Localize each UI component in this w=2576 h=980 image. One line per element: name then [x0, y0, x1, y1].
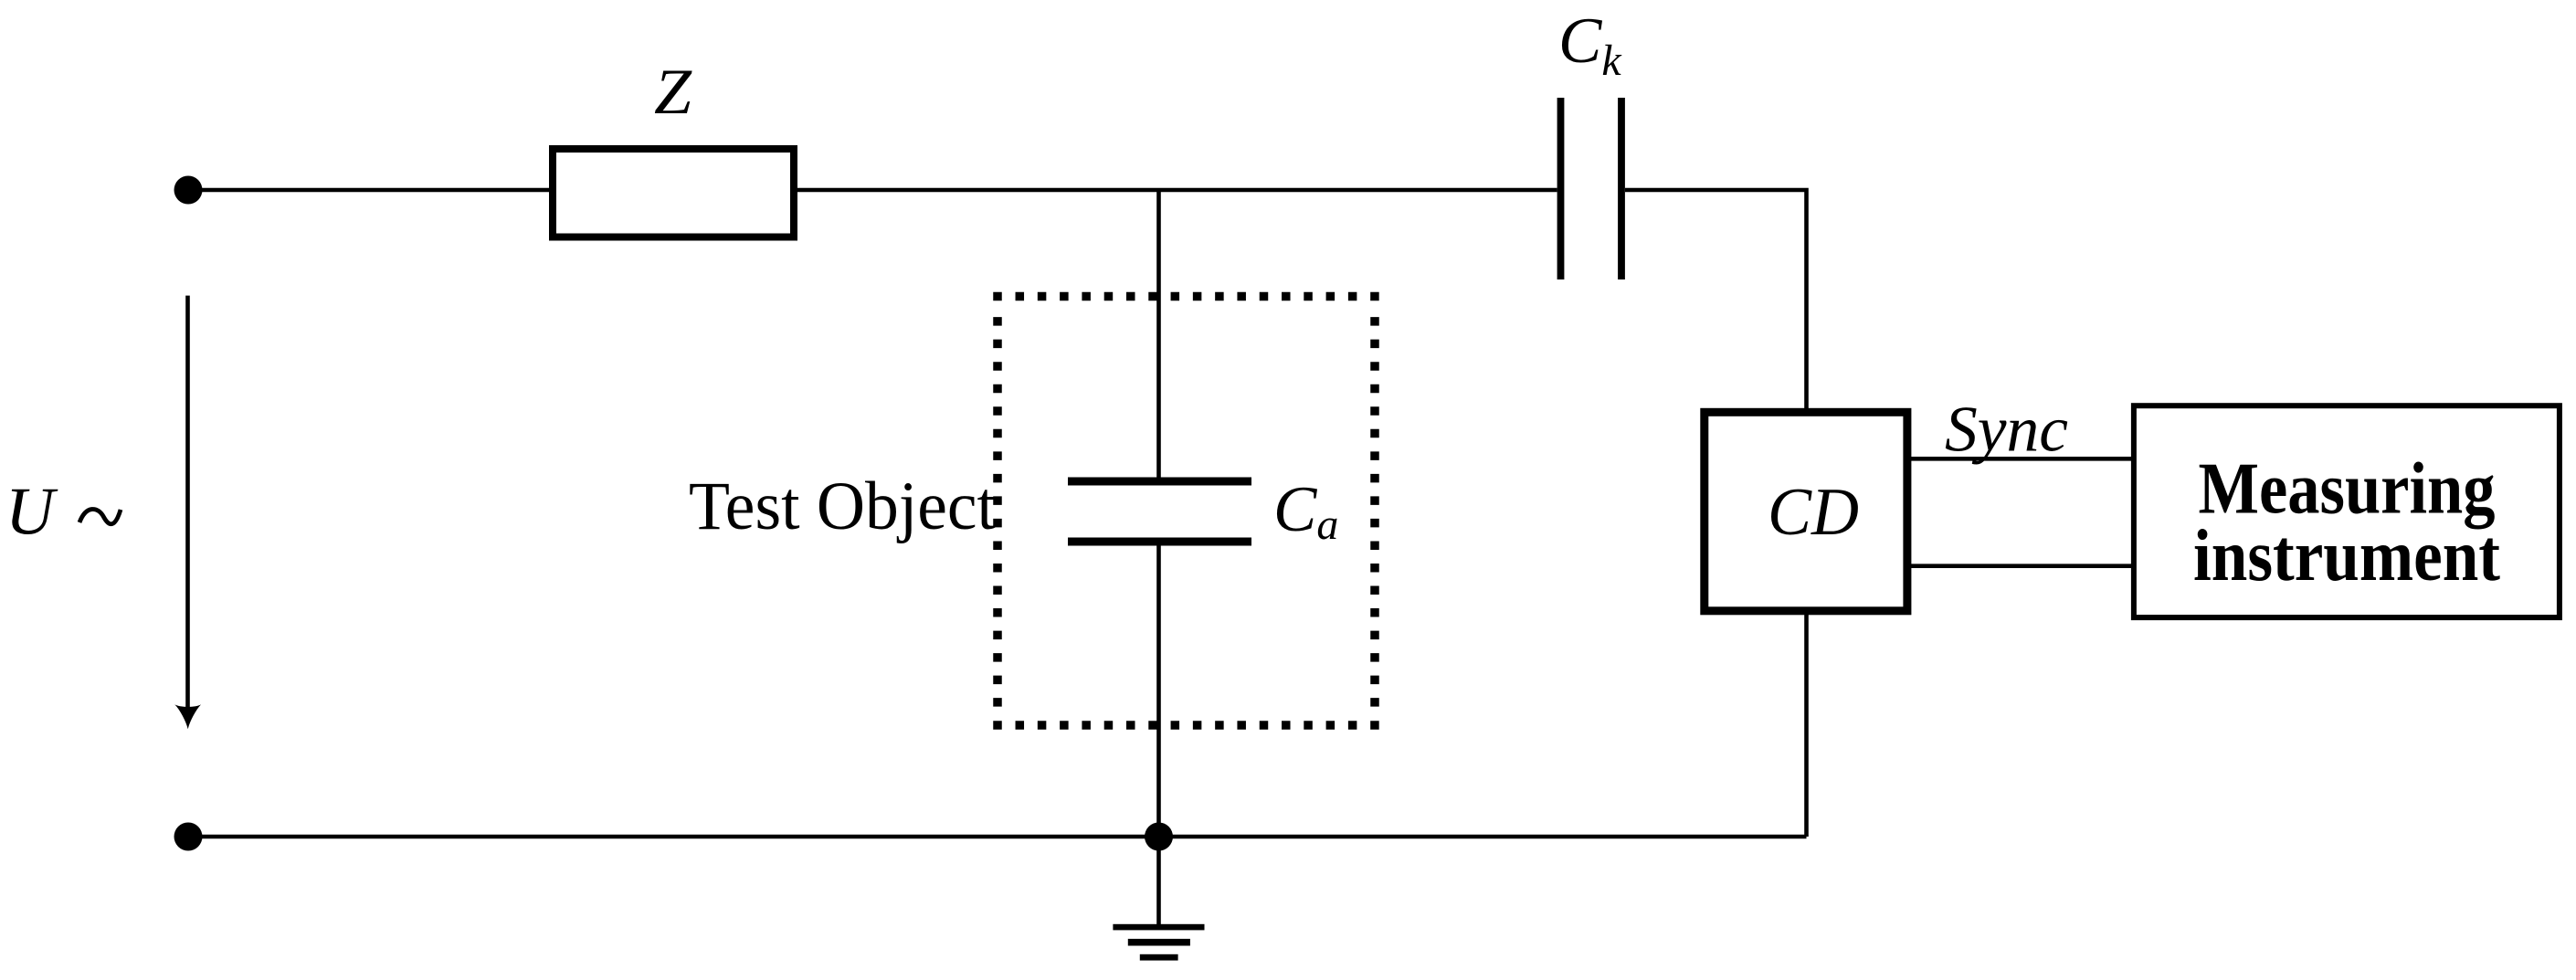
ground bar 1 — [1113, 924, 1204, 931]
node A junction: vertical wire to test object Ca — [1156, 190, 1161, 478]
svg-text:Test Object: Test Object — [689, 469, 996, 544]
svg-text:Z: Z — [654, 57, 693, 128]
node top-left terminal — [174, 176, 203, 205]
wire Sync from CD to measuring instrument — [1911, 457, 2134, 461]
arrow U direction, shaft — [185, 296, 190, 715]
measuring instrument box — [2134, 406, 2560, 617]
wire from bottom wire up to CD box — [1804, 612, 1809, 837]
svg-text:Sync: Sync — [1945, 395, 2068, 466]
ground bar 2 — [1128, 939, 1190, 946]
coupling device CD box — [1705, 412, 1907, 611]
node bottom-left terminal — [174, 823, 203, 851]
wire top-left from terminal to impedance Z — [188, 188, 553, 193]
capacitor Ck left plate — [1557, 98, 1565, 279]
wire from Ca bottom plate down to ground junction — [1156, 545, 1161, 924]
node ground junction — [1145, 823, 1173, 851]
capacitor Ca bottom plate — [1068, 538, 1251, 546]
capacitor Ca top plate — [1068, 478, 1251, 486]
wire bottom from terminal to CD branch — [188, 835, 1807, 839]
resistor Z (filter impedance box) — [553, 149, 794, 237]
ground bar 3 — [1140, 954, 1178, 961]
capacitor Ck right plate — [1618, 98, 1625, 279]
dotted box right edge — [1370, 317, 1379, 707]
dotted box of test object, top edge — [993, 292, 1379, 301]
wire from Ck right plate to corner and down to CD — [1625, 190, 1807, 412]
svg-text:CD: CD — [1768, 475, 1859, 550]
svg-text:U: U — [5, 475, 58, 550]
wire from Z to coupling capacitor Ck — [794, 188, 1557, 193]
dotted box bottom edge — [993, 721, 1379, 730]
wire lower signal from CD to measuring instrument — [1911, 564, 2134, 568]
arrow head — [174, 704, 201, 729]
tilde (AC symbol) — [79, 509, 121, 523]
dotted box left edge — [993, 317, 1002, 707]
svg-text:instrument: instrument — [2193, 516, 2500, 596]
